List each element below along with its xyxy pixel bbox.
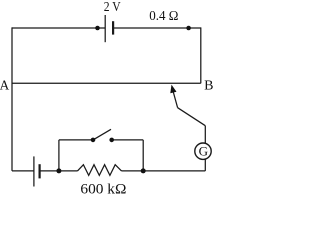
svg-text:600 kΩ: 600 kΩ bbox=[80, 182, 126, 198]
svg-text:2 V: 2 V bbox=[104, 0, 121, 15]
svg-text:A: A bbox=[0, 78, 9, 93]
svg-text:G: G bbox=[199, 143, 208, 158]
svg-text:0.4 Ω: 0.4 Ω bbox=[149, 9, 178, 24]
svg-text:B: B bbox=[204, 79, 213, 94]
